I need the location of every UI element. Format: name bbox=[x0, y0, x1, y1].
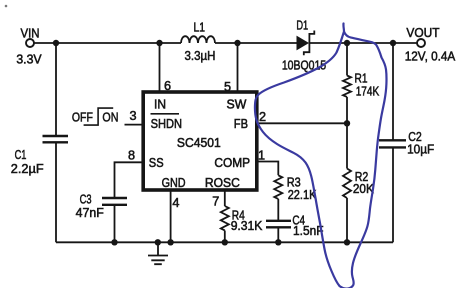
svg-text:SHDN: SHDN bbox=[151, 117, 182, 131]
svg-text:SS: SS bbox=[149, 156, 164, 170]
svg-text:OFF: OFF bbox=[72, 110, 93, 124]
wire pin6 stub bbox=[159, 43, 161, 92]
svg-text:ON: ON bbox=[102, 110, 118, 124]
node junction FB bbox=[344, 120, 350, 126]
svg-text:7: 7 bbox=[212, 195, 219, 209]
wire R1 top bbox=[346, 43, 348, 76]
ground bbox=[148, 242, 168, 264]
svg-text:9.31K: 9.31K bbox=[231, 219, 263, 233]
wire top rail VIN to L1 bbox=[34, 42, 181, 44]
svg-text:12V, 0.4A: 12V, 0.4A bbox=[405, 49, 456, 63]
wire R2 bottom bbox=[346, 198, 348, 242]
OFF/ON step signal bbox=[72, 108, 119, 125]
capacitor C4 bbox=[266, 214, 324, 238]
capacitor C1 bbox=[11, 136, 68, 176]
svg-text:SW: SW bbox=[227, 98, 247, 112]
svg-text:47nF: 47nF bbox=[76, 206, 104, 220]
svg-text:3.3µH: 3.3µH bbox=[185, 49, 216, 63]
node junction pin5/SW bbox=[234, 40, 240, 46]
terminal VIN bbox=[16, 26, 42, 66]
node junction R4 bottom bbox=[222, 239, 228, 245]
svg-text:L1: L1 bbox=[194, 21, 206, 35]
wire pin5 stub bbox=[237, 43, 239, 92]
svg-text:C3: C3 bbox=[80, 192, 92, 206]
capacitor C3 bbox=[76, 192, 127, 220]
capacitor C2 bbox=[379, 130, 434, 157]
wire R1 bottom bbox=[346, 97, 348, 123]
node junction ground bbox=[155, 239, 161, 245]
wire C4 bottom bbox=[277, 227, 279, 242]
node junction VIN/C1 bbox=[53, 40, 59, 46]
node junction C4 bottom bbox=[275, 239, 281, 245]
svg-text:1: 1 bbox=[258, 149, 265, 163]
resistor R2 bbox=[343, 169, 374, 199]
svg-text:VOUT: VOUT bbox=[406, 26, 439, 40]
node junction R1 top bbox=[344, 40, 350, 46]
svg-text:4: 4 bbox=[172, 196, 179, 210]
wire bottom rail bbox=[56, 241, 393, 243]
svg-text:2.2µF: 2.2µF bbox=[11, 162, 44, 176]
wire C1 branch lower bbox=[55, 142, 57, 242]
resistor R4 bbox=[221, 206, 263, 233]
resistor R1 bbox=[343, 72, 380, 99]
wire pin3 SHDN bbox=[125, 124, 144, 126]
svg-text:3.3V: 3.3V bbox=[16, 52, 42, 66]
wire C2 bottom bbox=[392, 147, 394, 242]
wire pin8 SS bbox=[115, 162, 144, 198]
wire top rail D1 to VOUT bbox=[310, 42, 418, 44]
node junction C3 bottom bbox=[111, 239, 117, 245]
wire R3 to C4 bbox=[277, 199, 279, 221]
svg-text:ROSC: ROSC bbox=[205, 176, 240, 190]
svg-text:COMP: COMP bbox=[214, 156, 250, 170]
svg-text:VIN: VIN bbox=[21, 26, 40, 40]
wire pin4 GND bbox=[170, 190, 172, 242]
wire R2 top bbox=[346, 123, 348, 168]
svg-text:FB: FB bbox=[234, 117, 248, 131]
terminal VOUT bbox=[405, 26, 456, 64]
wire C3 lower bbox=[114, 205, 116, 243]
svg-text:D1: D1 bbox=[296, 18, 308, 32]
wire pin7 ROSC bbox=[224, 190, 226, 206]
SHDN overline bbox=[151, 113, 180, 115]
svg-text:174K: 174K bbox=[356, 84, 380, 98]
svg-text:22.1K: 22.1K bbox=[288, 188, 317, 202]
blue pen annotation loop bbox=[255, 24, 387, 288]
node junction R2 bottom bbox=[344, 239, 350, 245]
speck artifact top-left bbox=[5, 5, 8, 8]
node junction pin4 bbox=[167, 239, 173, 245]
svg-text:GND: GND bbox=[162, 176, 186, 190]
node junction C2 top bbox=[390, 40, 396, 46]
svg-text:8: 8 bbox=[128, 149, 135, 163]
diode D1 10BQ015 bbox=[282, 18, 326, 72]
svg-text:IN: IN bbox=[154, 98, 166, 112]
svg-text:SC4501: SC4501 bbox=[177, 136, 221, 150]
op-amp U1 SC4501 box bbox=[143, 92, 257, 190]
wire pin2 FB bbox=[257, 122, 347, 124]
resistor R3 bbox=[274, 175, 317, 202]
svg-text:10BQ015: 10BQ015 bbox=[282, 59, 326, 73]
wire top rail L1 to D1 bbox=[215, 42, 297, 44]
svg-text:C1: C1 bbox=[15, 148, 27, 162]
inductor L1 bbox=[181, 21, 216, 64]
node junction pin6 bbox=[156, 40, 162, 46]
wire pin1 COMP bbox=[257, 162, 279, 176]
wire C1 branch upper bbox=[55, 43, 57, 136]
wire R4 bottom bbox=[224, 231, 226, 243]
svg-text:2: 2 bbox=[259, 110, 266, 124]
svg-text:1.5nF: 1.5nF bbox=[293, 224, 324, 238]
svg-text:3: 3 bbox=[129, 109, 136, 123]
wire C2 top bbox=[392, 43, 394, 140]
svg-text:10µF: 10µF bbox=[407, 143, 434, 157]
